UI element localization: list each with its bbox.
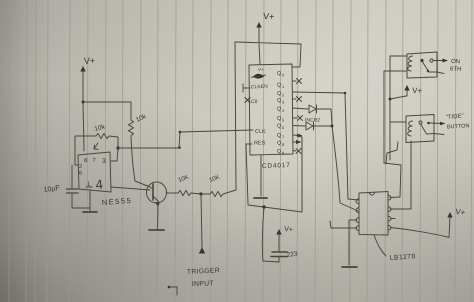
svg-text:BUTTON: BUTTON (447, 123, 470, 130)
node corner dot b (179, 131, 182, 134)
wire K2 bottom snake (386, 142, 398, 164)
wire R1 left lead to pins 2/6 (75, 136, 96, 165)
wire junction to R4 (201, 193, 210, 195)
pin stub Q7 arrow (293, 134, 299, 137)
scribble symbol (253, 74, 263, 79)
transistor Q1 emitter (153, 196, 159, 229)
node V+ (U3) arrowhead (447, 212, 452, 218)
wire R1 right lead to output node (109, 136, 118, 147)
wire pullup riser to V+ rail (235, 42, 236, 190)
node V+ (C2) arrowhead (276, 229, 281, 235)
wire K1 coil top lead (390, 55, 407, 57)
pin 1 underline (86, 186, 92, 188)
node V+ arrowhead (80, 66, 85, 72)
svg-text:V+: V+ (263, 11, 275, 22)
pin tab R1 (388, 195, 391, 200)
wire Q7 to RES rail (301, 137, 303, 211)
svg-text:V+: V+ (284, 226, 293, 234)
wire 555 pin4 to Q1 base (111, 187, 150, 190)
counter U2 CD4017 box (249, 64, 293, 155)
pin tab L2 (356, 208, 359, 213)
pin stub R3 (391, 218, 396, 220)
wire V+ stem into 4017 (259, 44, 260, 64)
relay K2 box (406, 115, 434, 143)
relay K1 box (407, 52, 437, 78)
wire V+ relay branch (390, 88, 407, 99)
node V+ relay dot (389, 98, 392, 101)
svg-text:CD4017: CD4017 (262, 162, 291, 170)
wire C1 bottom to ground (72, 193, 90, 208)
node K2 out arrowhead (440, 122, 446, 126)
wire reset rail (248, 205, 302, 212)
svg-text:CLK: CLK (255, 129, 266, 135)
wire K2 lever out (427, 134, 444, 135)
wire V+ to 555 pin 8 (83, 102, 84, 151)
resistor R3 10K (178, 190, 191, 195)
wire drop to U3 pin R1 (390, 165, 401, 198)
svg-text:C0: C0 (251, 99, 258, 105)
wire U3 L3 to ground (349, 220, 357, 265)
wire Q1 to R3 (166, 192, 178, 194)
wire horizontal link (384, 163, 401, 165)
wire Q2 to U3 pin1 (293, 92, 358, 200)
wire V+ top rail (235, 42, 301, 44)
node rail dot (262, 205, 265, 208)
svg-text:CLKEN: CLKEN (251, 84, 269, 91)
pin stub Q1 with x (293, 79, 302, 84)
wire cap branch down (262, 207, 279, 262)
pin tab R3 (388, 216, 391, 221)
wire R2 to Q1 collector (131, 137, 153, 190)
wire K1 coil bottom lead (384, 70, 407, 72)
relay K1 pivot contact (420, 59, 423, 62)
wire 555 pin3 to output node (111, 149, 118, 161)
wire K1 lever out (429, 72, 444, 74)
pin stub Q8 arrow (293, 141, 298, 143)
relay K2 fixed contact (427, 122, 430, 125)
node K1 out arrowhead (443, 59, 449, 63)
node trigger junction dot (199, 192, 202, 195)
wire U3 R4 to V+ (391, 216, 451, 238)
wire K2 contact out (430, 122, 443, 125)
pin tab L1 (356, 199, 359, 204)
relay K2 lever (421, 125, 427, 135)
node Q2 corner dot (344, 92, 347, 95)
op-amp U1 NE555 box (78, 152, 111, 192)
scribble stroke (252, 75, 266, 77)
wire V+ 4017 arrow stem (258, 26, 260, 43)
resistor R2 10k vertical (129, 120, 134, 136)
wire R4 to pullup riser (223, 190, 236, 194)
node trigger arrowhead (199, 247, 205, 254)
relay K2 coil (408, 121, 413, 136)
svg-text:3: 3 (102, 158, 106, 165)
wire U3 pin R2 to K2 (390, 141, 411, 209)
svg-text:V+: V+ (84, 56, 96, 66)
node diode join dot (331, 125, 334, 128)
wire trigger line (201, 194, 202, 247)
capacitor C1 wire top (71, 165, 73, 189)
capacitor C1 plates (67, 189, 79, 193)
wire D1 to join (317, 109, 332, 125)
node corner dot a (178, 146, 181, 149)
transistor Q1 circle (147, 182, 167, 203)
pin tab L4 (356, 226, 359, 231)
wire V+ arrow stem (82, 69, 84, 102)
relay K1 fixed contact (430, 59, 433, 62)
pin stub CLKEN (243, 84, 250, 92)
wire 4017 gnd stub (260, 155, 262, 196)
ground (555) (83, 211, 97, 213)
pin stub Q5 with x (293, 116, 303, 121)
svg-text:V+: V+ (258, 67, 264, 72)
svg-text:6TH: 6TH (450, 66, 462, 73)
chip notch (369, 192, 375, 195)
resistor R1 10k horizontal (96, 133, 109, 138)
relay K1 lever (423, 62, 429, 71)
svg-text:6: 6 (79, 171, 82, 177)
node V+ 4017 arrowhead (256, 22, 261, 28)
wire V1 vertical (383, 71, 385, 163)
wire join to U3 pin2 (332, 126, 358, 211)
wire Q6 to diode D2 (293, 125, 305, 128)
wire K1 contact out (433, 60, 445, 62)
relay K1 lever blob (427, 70, 429, 72)
diode D2 (306, 122, 314, 130)
wire 555 pin1 to ground (89, 190, 91, 211)
svg-text:INPUT: INPUT (192, 280, 214, 288)
pin tab R4 (388, 225, 391, 230)
corner mark dot (168, 286, 171, 289)
relay K2 pivot contact (419, 121, 422, 124)
wire V2 vertical (389, 56, 391, 160)
node V+ relay arrowhead (404, 85, 409, 91)
relay K1 coil (408, 56, 413, 71)
node junction dot V+ (82, 101, 85, 104)
capacitor C2 plates (271, 252, 287, 257)
wire V+ rail drop to pin16 (293, 44, 301, 67)
svg-text:4: 4 (95, 177, 104, 193)
ground (4017) (254, 197, 267, 199)
label leader line (374, 235, 386, 256)
ground (U3) (342, 266, 357, 268)
arrow mark at pin 7 (94, 143, 98, 149)
svg-text:2: 2 (79, 164, 82, 170)
wire V+ to R2 top (83, 102, 131, 120)
node output dot (116, 146, 119, 149)
node Q8 arrowhead (296, 140, 302, 144)
wire RES to rail (246, 144, 252, 204)
wire U3 L4 stub (330, 221, 357, 228)
wire R3 to junction (191, 193, 201, 194)
wire D2 to join (314, 125, 332, 127)
wire C2 to V+ arrow (278, 232, 280, 252)
transistor Q1 base bar (152, 184, 154, 200)
diode D1 (309, 105, 317, 113)
svg-text:V+: V+ (455, 207, 466, 217)
ground (Q1 emitter) (149, 229, 164, 231)
pin x mark C0 (245, 98, 250, 103)
node Q7 arrowhead (297, 134, 303, 138)
corner mark bottom left (169, 287, 177, 295)
wire K2 coil top lead (390, 121, 406, 123)
resistor R4 10K (210, 191, 223, 196)
wire Q4 to diode D1 (293, 108, 308, 109)
svg-text:RES: RES (254, 141, 266, 147)
pin tab L3 (356, 218, 359, 223)
svg-text:ON: ON (451, 58, 460, 65)
svg-text:V+: V+ (412, 86, 423, 96)
pin tab R2 (388, 207, 391, 212)
transistor Q1 emitter arrowhead (155, 202, 160, 206)
pin stub Q9 with x (293, 149, 301, 154)
pin stub Q3 with x (293, 97, 302, 102)
driver U3 chip body (359, 192, 388, 236)
wire 555 output to 4017 CLK (118, 130, 253, 148)
wire rail riser to Q7 (297, 136, 302, 212)
